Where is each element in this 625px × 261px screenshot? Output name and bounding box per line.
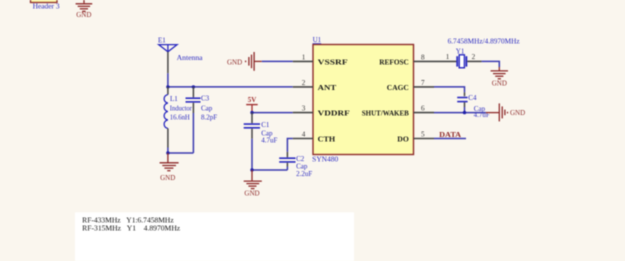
svg-text:5: 5 <box>421 131 425 139</box>
svg-text:GND: GND <box>160 174 175 182</box>
svg-text:VSSRF: VSSRF <box>318 57 349 66</box>
svg-text:CAGC: CAGC <box>387 83 409 92</box>
svg-text:SHUT/WAKEB: SHUT/WAKEB <box>362 109 409 118</box>
svg-text:1: 1 <box>446 53 450 61</box>
left electrode bar <box>456 56 458 66</box>
svg-text:GND: GND <box>492 80 507 88</box>
svg-text:Antenna: Antenna <box>177 54 204 62</box>
U1 pin 6 SHUT/WAKEB <box>362 105 434 118</box>
svg-text:DATA: DATA <box>439 131 461 139</box>
power port 5V <box>246 96 258 113</box>
power port GND (left of pin 1, rotated) <box>227 52 262 71</box>
crystal Y1 <box>434 48 482 68</box>
svg-text:3: 3 <box>302 105 306 113</box>
svg-text:6.7458MHz/4.8970MHz: 6.7458MHz/4.8970MHz <box>448 38 520 46</box>
svg-text:2: 2 <box>472 53 476 61</box>
svg-text:8: 8 <box>421 53 425 61</box>
wire GND to pin 1 <box>262 60 293 62</box>
svg-text:ANT: ANT <box>318 83 337 92</box>
capacitor C2 <box>279 152 312 178</box>
svg-text:C3: C3 <box>201 95 210 103</box>
svg-text:RF-433MHz Y1:6.7458MHz: RF-433MHz Y1:6.7458MHz <box>82 216 174 224</box>
svg-text:2: 2 <box>302 79 306 87</box>
svg-text:REFOSC: REFOSC <box>379 57 409 66</box>
svg-text:4.7uF: 4.7uF <box>261 136 277 144</box>
pin 1 lead <box>434 60 456 62</box>
junction (L1/C3 bottom) <box>166 151 169 154</box>
U1 pin 8 REFOSC <box>379 53 434 66</box>
U1 pin 7 CAGC <box>387 79 434 92</box>
wire L1 to bottom node <box>167 148 169 154</box>
svg-text:C1: C1 <box>261 121 270 129</box>
svg-text:Header 3: Header 3 <box>33 3 61 11</box>
svg-text:Cap: Cap <box>201 104 213 112</box>
capacitor C4 <box>457 92 490 119</box>
svg-text:6: 6 <box>421 105 425 113</box>
U1 pin 3 VDDRF <box>293 105 350 118</box>
svg-text:GND: GND <box>244 189 259 197</box>
crystal body <box>459 55 464 68</box>
IC U1 SYN480 body <box>312 36 413 164</box>
svg-text:VDDRF: VDDRF <box>318 109 351 118</box>
svg-text:SYN480: SYN480 <box>312 156 339 164</box>
svg-text:GND: GND <box>510 109 525 117</box>
wire Y1 to GND <box>482 61 500 67</box>
note box (white) <box>75 212 354 261</box>
svg-text:2.2uF: 2.2uF <box>296 170 312 178</box>
wire pin 6 to GND <box>434 112 486 114</box>
U1 pin 5 DO <box>397 131 434 144</box>
svg-text:5V: 5V <box>248 96 257 104</box>
U1 pin 1 VSSRF <box>293 53 349 66</box>
inductor L1 <box>164 87 192 148</box>
U1 pin 2 ANT <box>293 79 336 92</box>
wire 5V node to pin 3 <box>252 112 293 114</box>
svg-text:GND: GND <box>227 58 242 66</box>
ground GND (top-left, under Header 3) <box>76 0 93 19</box>
ground GND (right of Y1) <box>491 67 508 88</box>
ground GND (under L1/C3) <box>160 153 179 182</box>
wire bottom node horizontal <box>168 152 194 154</box>
svg-text:C4: C4 <box>468 94 477 102</box>
wire C1 to bottom node <box>251 139 253 170</box>
wire C3 to bottom node <box>192 113 194 153</box>
junction (antenna/L1) <box>166 85 169 88</box>
antenna pin <box>167 52 169 74</box>
wire node to pin 2 <box>168 86 293 88</box>
U1 pin 4 CTH <box>293 131 336 144</box>
wire pin 4 to C2 <box>287 139 292 152</box>
svg-text:RF-315MHz Y1 4.8970MHz: RF-315MHz Y1 4.8970MHz <box>82 224 180 232</box>
wire pin 5 DATA net <box>434 138 466 140</box>
svg-text:U1: U1 <box>313 36 322 44</box>
svg-text:L1: L1 <box>170 95 178 103</box>
svg-text:DO: DO <box>397 134 409 143</box>
svg-text:4: 4 <box>302 131 306 139</box>
antenna E1 <box>158 37 204 74</box>
junction (C1/GND bottom) <box>250 168 253 171</box>
junction (5V / C1) <box>250 111 253 114</box>
wire antenna to node <box>167 73 169 87</box>
svg-text:1: 1 <box>302 53 306 61</box>
wire bottom node to C2 <box>252 169 287 171</box>
capacitor C3 <box>186 87 218 121</box>
svg-text:CTH: CTH <box>318 134 336 143</box>
capacitor C1 <box>244 113 278 145</box>
svg-text:16.6nH: 16.6nH <box>170 113 190 121</box>
wire C2 to bottom node <box>286 167 288 171</box>
svg-text:GND: GND <box>76 11 91 19</box>
pin 2 lead <box>467 60 481 62</box>
svg-text:Inductor: Inductor <box>170 105 193 113</box>
right electrode bar <box>465 56 467 66</box>
ground GND (under C1) <box>244 170 262 197</box>
wire pin 7 to C4 <box>434 87 465 93</box>
wire C4 to pin 6 net <box>464 107 466 113</box>
power port GND (right of pin 6, rotated) <box>486 103 525 121</box>
junction (C4/pin6) <box>463 111 466 114</box>
svg-text:7: 7 <box>421 79 425 87</box>
junction (C3 tap) <box>192 85 195 88</box>
connector P1 Header 3 (cut off at top edge) <box>31 0 61 11</box>
svg-text:E1: E1 <box>158 37 166 45</box>
svg-text:8.2pF: 8.2pF <box>201 113 217 121</box>
